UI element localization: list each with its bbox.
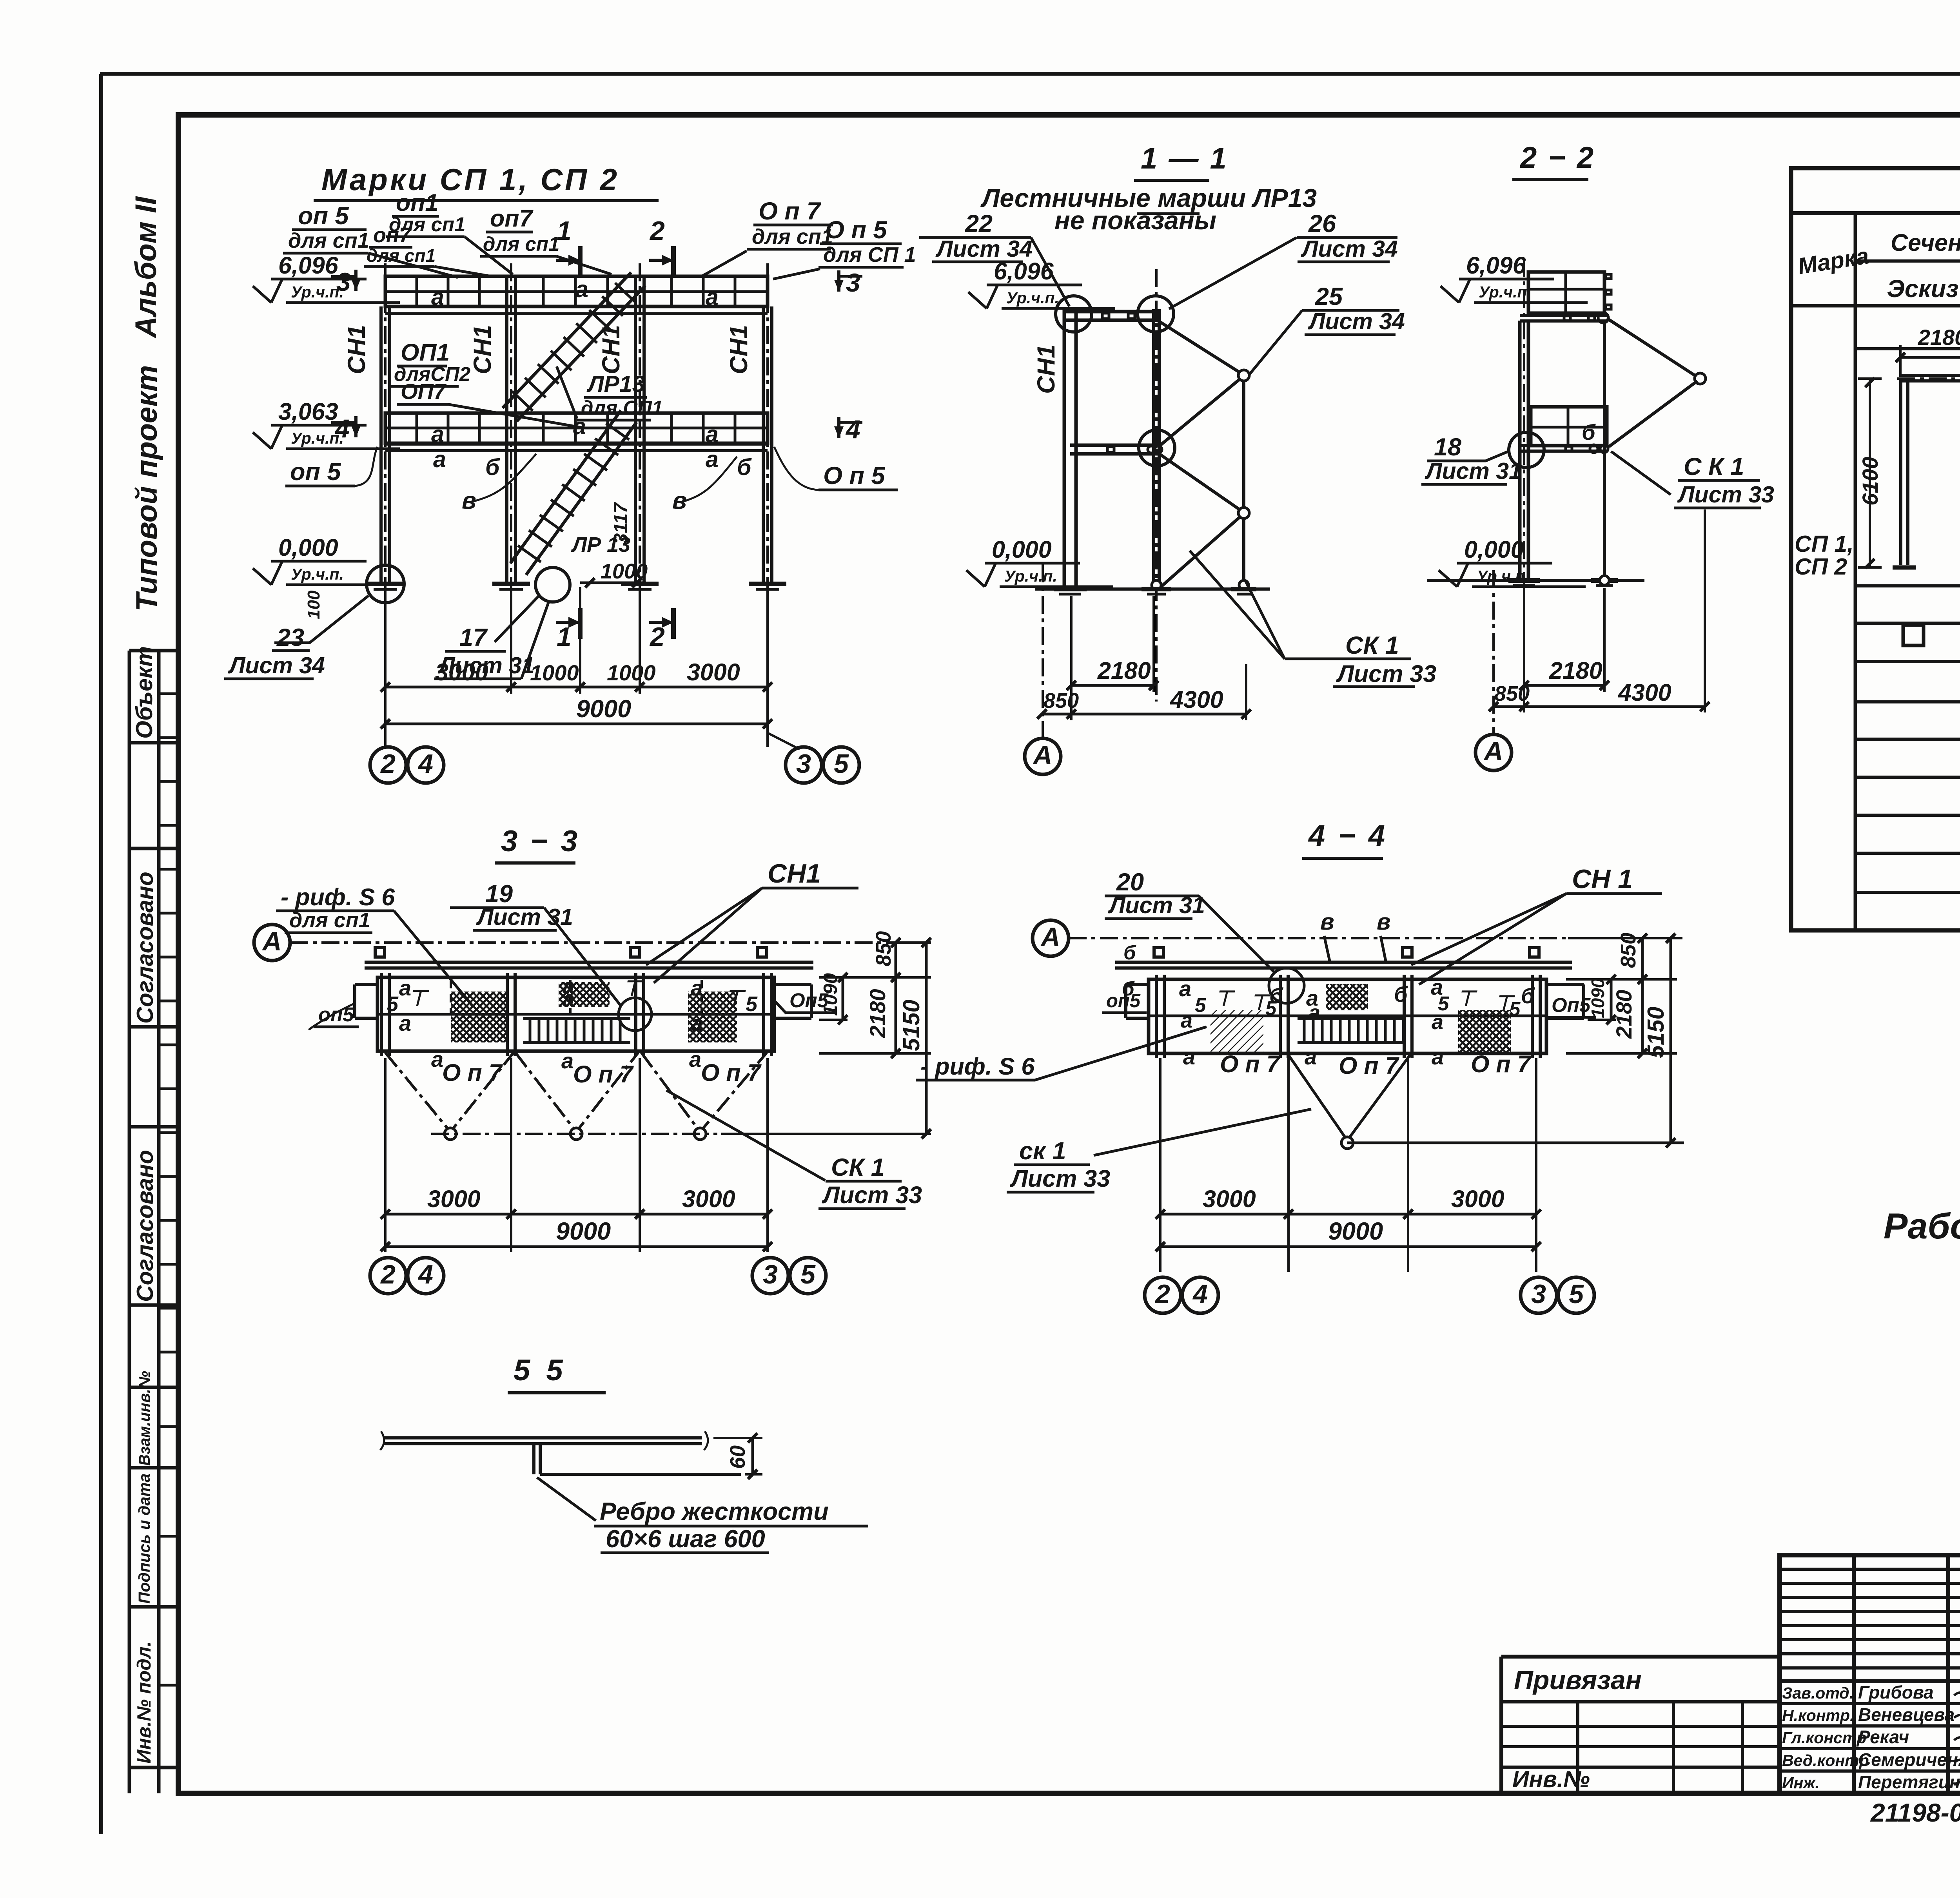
svg-text:2: 2 [380,1260,396,1289]
svg-text:3: 3 [1531,1279,1546,1309]
svg-text:СК 1: СК 1 [831,1154,885,1181]
svg-text:Гл.констр: Гл.констр [1782,1729,1866,1747]
svg-text:2: 2 [649,622,665,652]
svg-text:а: а [399,1011,411,1035]
svg-text:О п 7: О п 7 [1220,1051,1281,1077]
svg-text:А: А [1483,736,1503,766]
svg-text:4: 4 [417,1260,433,1289]
svg-text:О п 7: О п 7 [701,1059,762,1086]
svg-text:3000: 3000 [682,1186,735,1212]
svg-text:Инв.№ подл.: Инв.№ подл. [134,1641,155,1764]
svg-text:а: а [561,1048,573,1073]
svg-text:О п 7: О п 7 [1339,1052,1400,1079]
svg-text:Ур.ч.п.: Ур.ч.п. [291,565,344,583]
svg-text:- риф. S 6: - риф. S 6 [281,884,395,910]
svg-text:Вед.контр: Вед.контр [1782,1751,1869,1769]
svg-text:для сп1: для сп1 [367,245,436,266]
svg-text:1090: 1090 [1588,978,1608,1018]
svg-text:А: А [1040,922,1060,952]
svg-text:СН1: СН1 [469,325,496,374]
svg-text:⊤: ⊤ [1214,987,1235,1010]
svg-text:4300: 4300 [1169,686,1223,713]
svg-text:3000: 3000 [435,659,488,685]
svg-text:б: б [485,454,500,480]
svg-text:Инж.: Инж. [1782,1774,1820,1792]
svg-text:а: а [691,975,703,1000]
svg-text:6,096: 6,096 [994,258,1054,285]
svg-text:4 − 4: 4 − 4 [1308,819,1387,852]
svg-text:а: а [706,446,719,472]
svg-text:Лист 34: Лист 34 [228,653,325,678]
svg-text:⊤: ⊤ [622,977,643,1000]
svg-text:Зав.отд.: Зав.отд. [1782,1684,1854,1702]
svg-text:а: а [431,284,444,310]
svg-text:О п 7: О п 7 [573,1061,634,1088]
svg-text:21198-02 74: 21198-02 74 [1870,1798,1960,1827]
svg-text:Веневцева: Веневцева [1858,1704,1955,1725]
svg-text:а: а [1308,1001,1320,1024]
svg-text:60: 60 [726,1445,750,1469]
svg-text:0,000: 0,000 [992,536,1052,563]
svg-text:3 − 3: 3 − 3 [501,825,580,858]
svg-text:для СП 1: для СП 1 [823,243,916,266]
svg-text:1000: 1000 [607,660,656,685]
svg-text:СП 1,: СП 1, [1795,531,1854,557]
svg-text:Лист 31: Лист 31 [1108,892,1205,918]
svg-text:б: б [737,454,752,480]
svg-text:5150: 5150 [898,1000,924,1051]
svg-text:4300: 4300 [1617,679,1671,706]
svg-text:СН1: СН1 [725,325,753,374]
svg-text:в: в [1320,909,1334,935]
svg-text:а: а [706,421,719,447]
svg-text:Перетягина: Перетягина [1858,1772,1960,1792]
svg-text:а: а [573,413,586,439]
svg-text:ЛР13: ЛР13 [586,371,645,397]
svg-text:Семеричен.: Семеричен. [1858,1749,1960,1770]
svg-text:5: 5 [1569,1279,1584,1309]
svg-text:60×6 шаг 600: 60×6 шаг 600 [606,1525,765,1553]
svg-text:Взам.инв.№: Взам.инв.№ [136,1371,153,1466]
svg-text:А: А [1032,740,1052,770]
svg-text:3000: 3000 [427,1186,481,1212]
svg-text:Лист 34: Лист 34 [1308,308,1405,334]
svg-text:а: а [1183,1044,1195,1069]
svg-text:СК 1: СК 1 [1345,632,1399,659]
svg-text:б: б [1269,983,1283,1008]
svg-text:17: 17 [459,624,488,651]
svg-text:Объект: Объект [131,646,157,739]
svg-text:4: 4 [417,749,433,779]
svg-text:3000: 3000 [687,659,740,685]
svg-text:2180: 2180 [865,989,890,1038]
svg-text:23: 23 [276,624,304,651]
svg-text:2180: 2180 [1918,325,1960,350]
svg-text:5150: 5150 [1643,1007,1669,1058]
svg-text:5: 5 [1195,994,1206,1016]
svg-text:18: 18 [1434,433,1461,461]
svg-text:Инв.№: Инв.№ [1512,1766,1590,1792]
svg-text:б: б [1394,982,1408,1006]
svg-text:Н.контр.: Н.контр. [1782,1706,1854,1724]
svg-text:1 — 1: 1 — 1 [1141,142,1228,175]
svg-text:Ур.ч.п.: Ур.ч.п. [291,283,344,301]
svg-text:Подпись и дата: Подпись и дата [135,1474,153,1604]
svg-text:2180: 2180 [1612,990,1636,1039]
svg-text:Грибова: Грибова [1858,1682,1934,1702]
svg-text:⊤: ⊤ [408,986,429,1010]
svg-text:оп7: оп7 [490,205,534,232]
svg-text:1000: 1000 [530,660,579,685]
svg-text:5 5: 5 5 [514,1354,567,1387]
svg-text:О п 7: О п 7 [1471,1051,1532,1077]
svg-text:а: а [431,421,444,447]
svg-text:Марки СП 1, СП 2: Марки СП 1, СП 2 [321,162,619,197]
svg-text:Лист 34: Лист 34 [1301,236,1398,262]
svg-text:Работать совместно с лист: Работать совместно с листом 31 [1884,1206,1960,1246]
svg-text:Оп5: Оп5 [1552,994,1591,1016]
svg-text:Согласовано: Согласовано [132,872,158,1024]
svg-text:а: а [575,276,588,302]
svg-text:850: 850 [872,931,895,966]
svg-text:для СП1: для СП1 [581,397,663,419]
svg-text:СН1: СН1 [768,859,821,888]
svg-text:Согласовано: Согласовано [132,1150,158,1302]
svg-text:для сп1: для сп1 [483,233,559,255]
svg-text:4: 4 [1192,1279,1208,1309]
svg-text:а: а [689,1047,701,1071]
svg-text:а: а [433,446,446,472]
svg-text:3: 3 [763,1260,778,1289]
svg-text:Типовой проект: Типовой проект [130,365,163,611]
svg-text:Лист 33: Лист 33 [1336,660,1436,687]
svg-text:а: а [563,986,575,1011]
svg-text:СН1: СН1 [1033,344,1060,394]
svg-text:в: в [1377,909,1391,935]
svg-text:3: 3 [846,268,860,297]
svg-text:2180: 2180 [1097,657,1151,684]
svg-text:22: 22 [965,210,993,237]
svg-text:С К 1: С К 1 [1684,453,1744,480]
svg-text:850: 850 [1494,682,1530,705]
svg-text:оп 5: оп 5 [298,202,349,230]
svg-text:9000: 9000 [556,1218,611,1245]
svg-text:100: 100 [304,590,323,619]
svg-text:2: 2 [380,749,396,779]
svg-text:9000: 9000 [576,695,631,723]
svg-text:оп5: оп5 [1106,990,1141,1012]
svg-text:а: а [1432,1044,1444,1069]
svg-text:2: 2 [649,216,665,246]
svg-text:А: А [261,926,281,956]
svg-text:9000: 9000 [1328,1218,1383,1245]
svg-text:Эскиз: Эскиз [1887,275,1959,303]
svg-text:Привязан: Привязан [1514,1665,1642,1695]
svg-text:Рекач: Рекач [1858,1727,1909,1747]
svg-text:26: 26 [1308,210,1336,237]
svg-text:Сечение: Сечение [1891,229,1960,256]
svg-text:Лист 33: Лист 33 [822,1182,922,1208]
svg-text:а: а [1432,1010,1443,1034]
svg-text:1090: 1090 [820,973,841,1016]
svg-text:6,096: 6,096 [278,252,339,279]
svg-text:для сп1: для сп1 [288,229,369,252]
svg-text:3: 3 [796,749,811,779]
svg-text:О п 5: О п 5 [823,462,885,489]
svg-text:6,096: 6,096 [1466,252,1526,279]
svg-text:Ур.ч.п.: Ур.ч.п. [1006,289,1059,307]
svg-text:⊤: ⊤ [724,986,746,1010]
svg-text:а: а [706,284,719,310]
svg-text:Альбом II: Альбом II [129,196,163,339]
svg-text:а: а [431,1047,443,1071]
svg-text:2180: 2180 [1549,657,1602,684]
svg-text:ОП1: ОП1 [401,339,450,366]
svg-text:5: 5 [746,992,758,1016]
svg-text:- риф. S 6: - риф. S 6 [920,1053,1035,1080]
svg-text:б: б [1582,420,1596,444]
svg-text:Лист 33: Лист 33 [1677,482,1774,508]
svg-text:Лист 33: Лист 33 [1010,1165,1110,1192]
svg-text:а: а [1179,976,1191,1001]
svg-text:не показаны: не показаны [1054,206,1216,235]
svg-text:а: а [691,1011,703,1035]
svg-text:а: а [1305,1044,1317,1069]
svg-text:3000: 3000 [1451,1186,1504,1212]
svg-text:19: 19 [485,880,513,908]
svg-text:б: б [1521,983,1535,1008]
svg-text:0,000: 0,000 [1464,536,1524,563]
svg-text:О п 7: О п 7 [442,1059,503,1086]
svg-text:Ребро жесткости: Ребро жесткости [600,1498,829,1525]
svg-text:2 − 2: 2 − 2 [1519,141,1595,174]
svg-text:О п 7: О п 7 [759,198,821,225]
svg-text:ОП7: ОП7 [401,379,447,404]
svg-text:5: 5 [387,992,399,1016]
svg-text:Лист 31: Лист 31 [1425,458,1522,484]
svg-text:5: 5 [834,749,849,779]
svg-text:а: а [1181,1009,1192,1032]
svg-text:2: 2 [1154,1279,1170,1309]
svg-text:оп1: оп1 [396,189,438,216]
svg-text:О п 5: О п 5 [825,216,887,244]
svg-text:оп 5: оп 5 [290,458,341,486]
svg-text:СП 2: СП 2 [1795,554,1847,580]
svg-text:Ур.ч.п.: Ур.ч.п. [1004,567,1057,585]
svg-text:б: б [1123,941,1136,964]
svg-text:ск 1: ск 1 [1019,1137,1066,1165]
svg-text:3000: 3000 [1203,1186,1256,1212]
svg-text:⊤: ⊤ [1457,987,1477,1010]
svg-text:3: 3 [336,267,351,296]
svg-text:3,063: 3,063 [278,398,338,425]
svg-text:20: 20 [1116,868,1144,896]
svg-text:850: 850 [1044,689,1079,712]
svg-text:СН1: СН1 [343,325,370,374]
svg-text:для сп1: для сп1 [289,908,370,932]
svg-text:3117: 3117 [610,502,632,544]
svg-text:0,000: 0,000 [278,534,338,561]
svg-text:25: 25 [1315,283,1343,310]
svg-text:4: 4 [845,415,860,444]
svg-text:СН1: СН1 [597,325,625,374]
svg-text:оп7: оп7 [373,223,412,247]
svg-text:4: 4 [334,414,350,443]
svg-text:5: 5 [800,1260,816,1289]
svg-text:СН 1: СН 1 [1572,864,1633,894]
svg-text:1: 1 [557,622,572,652]
svg-text:5: 5 [1509,998,1521,1020]
